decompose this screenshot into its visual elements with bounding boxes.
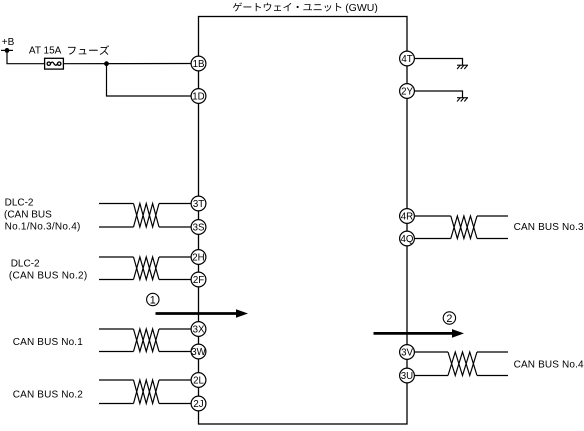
junction node xyxy=(104,61,109,66)
connector pin 3X xyxy=(191,322,206,337)
circled number 2 xyxy=(443,312,455,325)
circled number 1 xyxy=(147,293,159,306)
twisted pair: pins 4R/4Q to CAN BUS No.3 xyxy=(414,216,508,239)
svg-text:3X: 3X xyxy=(193,324,205,335)
svg-text:1B: 1B xyxy=(193,59,205,70)
svg-text:+B: +B xyxy=(2,37,15,48)
svg-text:4T: 4T xyxy=(401,54,412,65)
svg-text:2: 2 xyxy=(446,313,452,325)
connector pin 2L xyxy=(191,373,206,388)
+B power terminal xyxy=(1,37,15,53)
connector pin 2Y xyxy=(400,84,415,99)
connector pin 3T xyxy=(191,196,206,211)
wire pin 4T to ground xyxy=(414,59,462,66)
label: gateway unit (GWU) title xyxy=(233,2,341,11)
connector pin 2H xyxy=(191,250,206,265)
svg-text:3W: 3W xyxy=(191,347,206,358)
connector pin 4Q xyxy=(400,231,415,246)
svg-text:CAN BUS No.3: CAN BUS No.3 xyxy=(514,222,584,233)
svg-text:2H: 2H xyxy=(192,252,204,263)
svg-text:2J: 2J xyxy=(193,399,203,410)
connector pin 4T xyxy=(400,51,415,66)
twisted pair: DLC-2 CAN BUS No.1/No.3/No.4 to pins 3T/3S xyxy=(99,204,191,228)
svg-text:(GWU): (GWU) xyxy=(345,2,378,14)
svg-text:1: 1 xyxy=(150,294,156,306)
svg-text:CAN BUS No.1: CAN BUS No.1 xyxy=(13,337,83,348)
label: AT 15A fuse xyxy=(29,45,109,56)
connector pin 1D xyxy=(191,89,206,104)
svg-text:CAN BUS No.2: CAN BUS No.2 xyxy=(13,389,83,400)
gateway unit box U1 xyxy=(199,17,408,425)
svg-text:1D: 1D xyxy=(192,91,204,102)
svg-text:DLC-2: DLC-2 xyxy=(11,258,40,269)
ground symbol (4T) xyxy=(457,65,468,69)
svg-text:CAN BUS No.4: CAN BUS No.4 xyxy=(514,360,584,371)
svg-text:4R: 4R xyxy=(401,211,413,222)
connector pin 2F xyxy=(191,272,206,287)
ground symbol (2Y) xyxy=(457,98,468,102)
svg-text:3V: 3V xyxy=(401,347,413,358)
connector pin 4R xyxy=(400,209,415,224)
connector pin 1B xyxy=(191,56,206,71)
twisted pair: pins 3V/3U to CAN BUS No.4 xyxy=(414,352,508,376)
twisted pair: CAN BUS No.2 to pins 2L/2J xyxy=(99,380,191,404)
connector pin 3V xyxy=(400,345,415,360)
wire pin 2Y to ground xyxy=(414,91,462,98)
connector pin 2J xyxy=(191,396,206,411)
svg-text:3T: 3T xyxy=(193,199,204,210)
twisted pair: CAN BUS No.1 to pins 3X/3W xyxy=(99,329,191,352)
svg-text:(CAN BUS No.2): (CAN BUS No.2) xyxy=(9,271,88,282)
fuse F1: AT 15A xyxy=(45,58,64,69)
svg-text:2Y: 2Y xyxy=(401,86,413,97)
twisted pair: DLC-2 CAN BUS No.2 to pins 2H/2F xyxy=(99,257,191,280)
wire junction to pin 1D xyxy=(107,64,192,96)
svg-text:4Q: 4Q xyxy=(401,234,414,245)
connector pin 3S xyxy=(191,220,206,235)
svg-text:2L: 2L xyxy=(193,375,204,386)
connector pin 3W xyxy=(191,344,207,359)
svg-text:AT 15A: AT 15A xyxy=(29,46,62,57)
svg-text:DLC-2: DLC-2 xyxy=(5,198,34,209)
svg-text:No.1/No.3/No.4): No.1/No.3/No.4) xyxy=(5,222,81,233)
connector pin 3U xyxy=(400,368,415,383)
svg-text:2F: 2F xyxy=(193,275,204,286)
flow arrow 1 xyxy=(156,309,249,318)
svg-text:(CAN BUS: (CAN BUS xyxy=(4,210,52,221)
wire fuse to pin 1B xyxy=(63,63,191,65)
svg-text:3S: 3S xyxy=(193,222,205,233)
wire +B to fuse xyxy=(7,50,45,63)
flow arrow 2 xyxy=(374,329,465,338)
svg-text:3U: 3U xyxy=(401,371,413,382)
